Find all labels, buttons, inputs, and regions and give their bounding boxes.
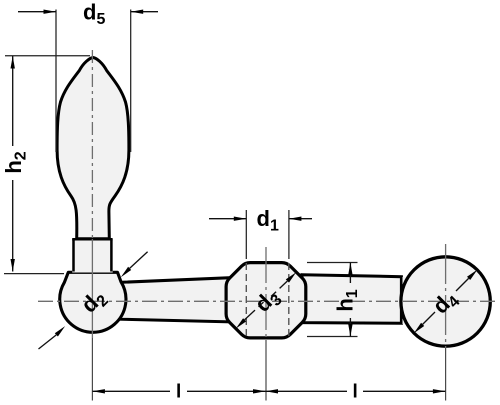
arrowhead d5 left — [44, 10, 57, 14]
dimension line l right span, right segment — [363, 390, 445, 392]
arrowhead h2 bottom — [11, 259, 15, 272]
dimension line d3 lower-left dash — [259, 302, 264, 307]
band collar left edge — [72, 239, 75, 272]
arrowhead l left span at boss center — [92, 389, 105, 393]
band collar right edge — [110, 239, 113, 272]
dimension line d3 upper-right segment — [280, 281, 288, 288]
dimension line d3 upper-right dash — [271, 292, 276, 297]
band collar fill — [72, 239, 113, 273]
dimension line l left span, left segment — [92, 390, 170, 392]
leader line d2 upper right — [130, 252, 148, 269]
centerline: boss vertical — [91, 239, 93, 338]
extension line d5 right — [130, 10, 132, 153]
dimension line d3 lower-left segment — [245, 310, 255, 320]
arrowhead h2 top — [11, 56, 15, 69]
dimension line d1 right tail — [289, 218, 312, 220]
arrowhead h1 top — [348, 263, 352, 276]
arrowhead d1 right — [289, 217, 302, 221]
dimension line d5 left tail — [18, 11, 56, 13]
dimension line l left span, right segment — [187, 390, 266, 392]
arrowhead l right span at hub center — [266, 389, 279, 393]
lever arm: boss d2 to hub d3 — [119, 278, 230, 322]
arrowhead d1 left — [234, 217, 247, 221]
centerline: main horizontal axis — [38, 300, 499, 302]
hub d3 (octagonal boss) — [226, 263, 306, 338]
hidden bore line left (d1) — [245, 263, 247, 337]
extension line h1 top — [307, 262, 358, 264]
dimension line h1 lower segment — [349, 318, 351, 337]
extension line: boss center to l dimension — [91, 338, 93, 401]
handle grip (spindle shape) — [57, 58, 129, 239]
leader line d2 lower left — [39, 335, 57, 349]
lever arm: hub d3 to ball d4 — [302, 275, 401, 324]
arrowhead h1 bottom — [348, 324, 352, 337]
hidden bore line right (d1) — [288, 263, 290, 337]
dimension line d1 left tail — [209, 218, 246, 220]
extension line h2 bottom — [4, 273, 64, 275]
dimension line l right span, left segment — [266, 390, 348, 392]
arrowhead d4 lower left — [414, 323, 424, 333]
arrowhead d2 upper right — [121, 267, 131, 277]
arrowhead d3 upper right — [286, 272, 296, 282]
extension line d1 right — [288, 210, 290, 259]
dimension line d5 right tail — [131, 11, 158, 13]
arrowhead d2 lower left — [55, 326, 65, 336]
extension line: hub center to l dimension — [265, 340, 267, 401]
arrowhead d4 upper right — [467, 270, 477, 280]
dimension line d4 upper-right segment — [456, 278, 469, 291]
arrowhead d3 lower left — [236, 318, 246, 328]
centerline: ball vertical — [445, 244, 447, 348]
arrowhead d5 right — [131, 10, 144, 14]
extension line d5 left — [55, 10, 57, 153]
boss d2 (circle with collar flat top) — [60, 272, 126, 332]
centerline: hub vertical — [265, 247, 267, 340]
extension line h2 top — [5, 55, 90, 57]
band top line — [72, 238, 112, 241]
centerline: grip vertical (dash-dot) — [91, 50, 93, 238]
extension line d1 left — [245, 210, 247, 259]
dimension line d4 lower-left segment — [423, 312, 435, 324]
svg-text:l: l — [353, 382, 358, 403]
dimension line h2 upper segment — [12, 56, 14, 146]
dimension line h2 lower segment — [12, 180, 14, 272]
svg-text:l: l — [176, 382, 181, 403]
arrowhead l left span at hub center — [253, 389, 266, 393]
extension line h1 bottom — [307, 336, 358, 338]
extension line: ball center to l dimension — [445, 348, 447, 401]
dimension line h1 upper segment — [349, 263, 351, 284]
arrowhead l right span at ball center — [433, 389, 446, 393]
junction filler arm2/ball — [403, 277, 408, 324]
ball knob d4 — [401, 257, 490, 346]
